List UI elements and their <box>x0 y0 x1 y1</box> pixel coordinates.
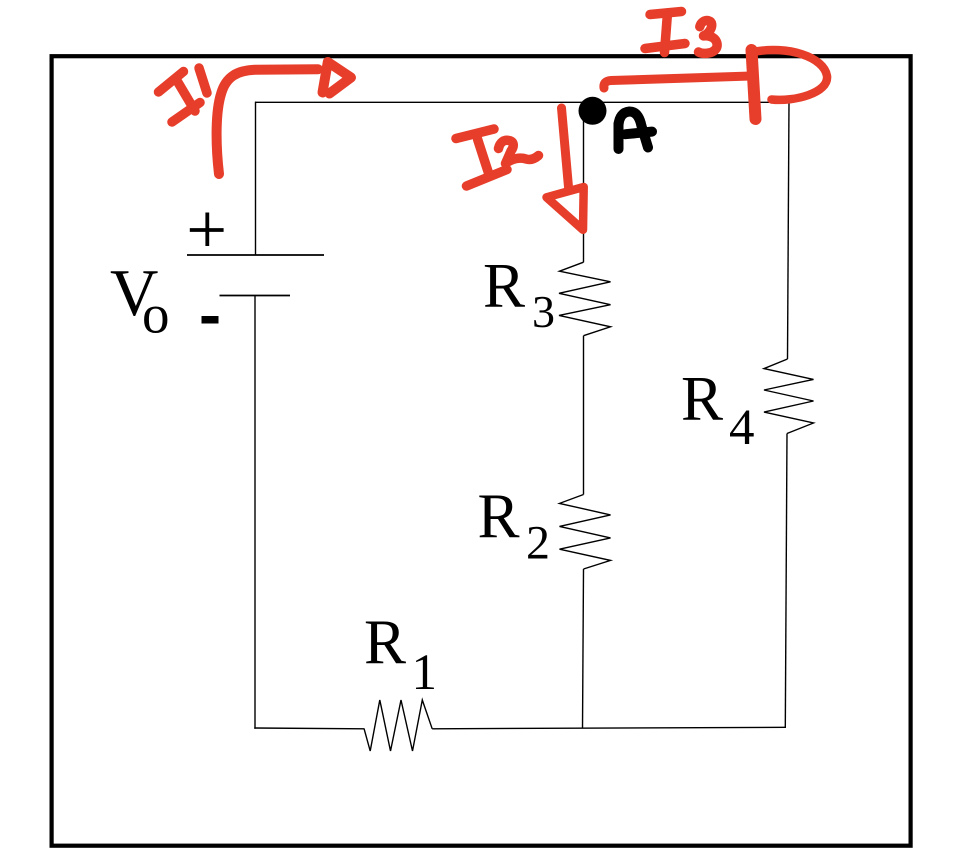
label R3 <box>483 251 555 337</box>
label + <box>190 213 224 247</box>
resistor R2 <box>560 495 611 570</box>
resistor R1 <box>364 700 432 751</box>
label I3 <box>645 12 717 54</box>
label I2 <box>456 129 539 186</box>
svg-text:R: R <box>478 482 520 552</box>
wire right branch upper <box>788 102 790 359</box>
wire middle branch upper <box>583 102 585 263</box>
wire middle branch mid <box>583 336 585 495</box>
current arrow I3 <box>604 50 827 119</box>
wire bottom right <box>432 727 786 729</box>
wire top <box>255 101 789 103</box>
label I1 <box>159 68 208 122</box>
svg-text:3: 3 <box>532 286 555 337</box>
label - <box>202 316 219 324</box>
svg-text:R: R <box>364 608 406 678</box>
svg-text:2: 2 <box>526 517 550 570</box>
svg-text:R: R <box>681 364 723 434</box>
label V0 <box>110 256 170 345</box>
resistor R4 <box>764 359 814 434</box>
current arrow I2 <box>547 108 584 230</box>
current arrow I1 <box>217 62 351 174</box>
wire left branch lower <box>254 296 256 729</box>
label R1 <box>364 608 437 702</box>
battery V0 <box>187 255 324 296</box>
label R4 <box>681 364 755 456</box>
svg-text:R: R <box>483 251 525 321</box>
label R2 <box>478 482 551 570</box>
wire bottom left <box>254 727 364 730</box>
label A <box>619 112 653 150</box>
resistor R3 <box>559 262 611 336</box>
svg-text:4: 4 <box>729 400 755 456</box>
wire left branch upper <box>255 102 257 255</box>
svg-text:o: o <box>142 284 170 345</box>
wire right branch lower <box>785 434 787 728</box>
wire middle branch lower <box>583 569 584 729</box>
node A <box>579 97 607 125</box>
svg-text:1: 1 <box>412 645 438 701</box>
